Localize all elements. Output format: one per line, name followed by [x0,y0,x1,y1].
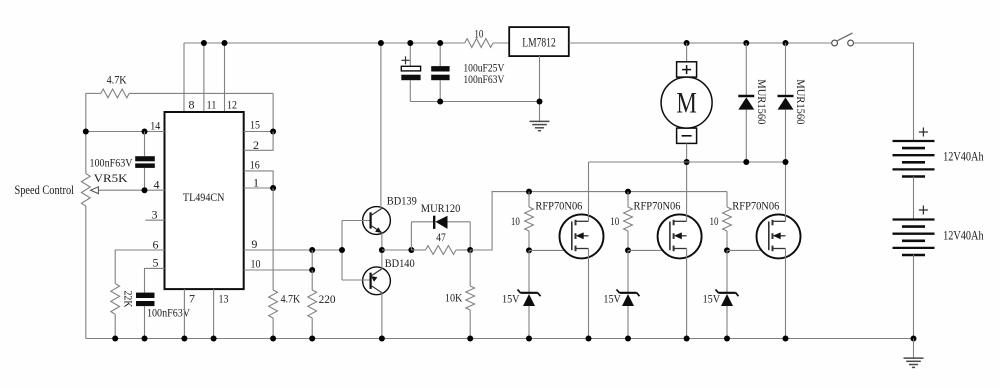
junction wiper line / C1 [142,187,148,193]
junction ground rail 4.7K [270,336,276,342]
wire pot wiper to pin 4 [95,189,165,191]
wire up to MUR120 anode side [410,222,412,250]
svg-text:12V40Ah: 12V40Ah [943,228,984,242]
transistor M2 RFP70N06 MOSFET [658,214,702,258]
junction BD139 collector / top rail [378,40,384,46]
junction MUR1560 1 / top rail [743,40,749,46]
junction pin 11 riser / top rail [201,40,207,46]
svg-text:22K: 22K [121,291,135,308]
svg-text:1: 1 [253,175,259,189]
svg-text:Speed Control: Speed Control [15,182,75,197]
wire BD140 collector to ground rail [381,293,383,339]
junction gate node 1 [526,247,532,253]
svg-text:6: 6 [153,237,159,251]
transistor Q1 BD139 [342,207,390,235]
svg-text:10: 10 [610,214,619,228]
pin 3 stub [145,219,164,221]
svg-text:3: 3 [152,207,158,221]
wire emitter node to 47R node [382,249,412,251]
junction ground rail pin 7 [181,336,187,342]
junction MUR1560 2 / top rail [783,40,789,46]
junction ground rail BD140 collector [379,336,385,342]
resistor 4.7K feedback (top left) [86,92,101,94]
svg-text:4.7K: 4.7K [281,292,301,306]
svg-text:12V40Ah: 12V40Ah [943,149,984,163]
wiper arrow of VR5K [91,187,99,194]
svg-text:5: 5 [153,256,159,270]
wire pin 1 [244,187,273,189]
svg-text:47: 47 [436,230,446,244]
junction C3 / top rail [407,40,413,46]
battery B1 12V40Ah [893,140,935,142]
capacitor C2 100nF63V (pin 5 to ground) [136,293,155,298]
resistor 220 (pins 9-10 to ground) [311,270,313,290]
minus sign motor terminal [682,135,692,137]
junction 47R left node [408,247,414,253]
junction emitters / output node [379,247,385,253]
wire caps bottom to LM7812 ground [410,101,539,103]
junction pin 1 / pin 16 / 4.7K [270,185,276,191]
svg-text:15V: 15V [603,292,621,306]
resistor 10 gate resistor 3 [726,192,728,207]
junction C4 bottom [437,99,443,105]
junction ground rail zener 3 [724,336,730,342]
junction MUR1560 2 / drain bus [783,159,789,165]
junction LM7812 ground node [537,99,543,105]
svg-text:10: 10 [511,214,520,228]
svg-text:13: 13 [219,292,229,306]
svg-text:100nF63V: 100nF63V [463,72,504,86]
svg-text:100nF63V: 100nF63V [90,155,133,169]
junction ground rail C2 [142,336,148,342]
wire battery B2 to ground rail [913,255,915,339]
svg-text:MUR1560: MUR1560 [794,79,808,124]
wire pin 14 [86,131,165,133]
wire LM7812 to switch [569,42,832,44]
potentiometer VR5K body [81,174,90,207]
wire BD139 collector to +V rail [380,43,382,208]
svg-text:TL494CN: TL494CN [183,190,225,204]
wire pin 7 to ground rail [183,289,185,338]
junction gate node 2 [625,247,631,253]
wire +V top rail left segment (pin8 riser corner to 10R) [184,42,465,44]
wire gate lead 3 [727,249,769,251]
svg-text:15V: 15V [703,292,721,306]
svg-text:10: 10 [474,27,483,41]
junction ground rail MOSFET 2 source [684,336,690,342]
wire battery negative to ground symbol [913,339,915,359]
svg-text:MUR1560: MUR1560 [755,79,769,124]
ground symbol at LM7812 [530,120,550,122]
switch S1 [837,33,852,41]
junction ground rail 220 [309,336,315,342]
transistor M3 RFP70N06 MOSFET [757,214,801,258]
regulator U2 LM7812 box [509,27,569,56]
svg-text:RFP70N06: RFP70N06 [535,199,582,213]
transistor Q2 BD140 [342,267,390,295]
wire joining pin 9 and pin 10 [311,250,313,270]
junction pin 10 / 220 resistor [309,267,315,273]
junction left rail / pin 14 [83,129,89,135]
junction ground rail pin 13 [211,336,217,342]
wire gate drive feed up to gate bus [470,192,727,250]
plus sign battery B1 [919,131,928,133]
svg-text:10: 10 [710,214,719,228]
op IC U1 TL494CN box [165,112,244,289]
resistor 10 gate resistor 1 [528,192,530,207]
wire 10R to LM7812 [493,42,509,44]
wire 4.7K down to pin 15 node [272,93,274,131]
wire emitter bus Q1-Q2 [381,233,383,269]
svg-text:8: 8 [189,98,195,112]
svg-text:4.7K: 4.7K [107,73,127,87]
wire MOSFET 1 drain [588,162,590,221]
svg-text:9: 9 [251,237,257,251]
junction motor / top rail [684,40,690,46]
wire MUR120 cathode down to 47R right node [469,222,471,250]
wire pin 2 up to pin 15 node [244,132,273,151]
transistor M1 RFP70N06 MOSFET [560,214,604,258]
svg-text:12: 12 [227,98,237,112]
junction C4 / top rail [437,40,443,46]
junction pin 12 riser / top rail [222,40,228,46]
junction base bus / pin 9 wire [339,247,345,253]
wire gate lead 1 [529,249,572,251]
svg-text:MUR120: MUR120 [421,201,461,215]
ground symbol at battery [904,357,924,359]
junction MUR1560 1 / drain bus [743,159,749,165]
resistor 4.7K (pin 1 to ground) [272,188,274,290]
resistor 10 (series, LM7812 input) [465,39,493,48]
svg-text:LM7812: LM7812 [522,36,556,50]
wire LM7812 ground pin [539,56,541,121]
wire base bus vertical [341,221,343,281]
junction pin 9 / 220 resistor [309,247,315,253]
junction ground rail zener 1 [526,336,532,342]
wire pin 16 down to pin 1 node [244,171,273,188]
resistor 10 gate resistor 2 [627,192,629,207]
junction pin 15 / 4.7K / pin 2 [270,129,276,135]
wire MOSFET 1 source to ground rail [588,249,590,339]
wire pin 6 [115,250,164,284]
svg-text:M: M [676,86,697,119]
junction ground rail battery negative [911,336,917,342]
wire gate lead 2 [628,249,670,251]
junction motor minus / drain bus [684,159,690,165]
svg-text:BD139: BD139 [387,194,417,208]
svg-text:10: 10 [251,256,261,270]
junction gate bus / 10R 1 [526,189,532,195]
junction gate bus / 10R 2 [625,189,631,195]
wire switch to battery column [854,43,914,141]
plus sign motor terminal [682,69,691,71]
svg-text:4: 4 [154,178,160,192]
junction ground rail MOSFET 3 source [783,336,789,342]
wire pin 9 to driver bases [244,249,342,251]
junction 47R right node [467,247,473,253]
svg-text:RFP70N06: RFP70N06 [732,199,779,213]
resistor 22K (pin 6 to ground) [111,284,120,315]
wire ground bottom rail [86,338,914,340]
svg-text:15: 15 [250,118,260,132]
wire motor minus lead to drain bus [686,143,688,162]
zener D6 15V gate clamp 3 [726,250,728,292]
diode D2 MUR1560 1 [745,43,747,95]
junction ground rail 22K [112,336,118,342]
svg-text:14: 14 [150,118,160,132]
junction pin 14 / capacitor C1 [142,129,148,135]
capacitor C1 100nF63V (pin14-pin4) [144,132,146,157]
svg-text:220: 220 [319,292,336,306]
junction ground rail zener 2 [625,336,631,342]
svg-text:7: 7 [189,292,195,306]
svg-text:11: 11 [207,98,217,112]
resistor 47 (parallel with MUR120) [411,249,425,251]
wire drain bus [589,161,786,163]
wire pin 12 riser [224,43,226,112]
diode D1 MUR120 [411,221,435,223]
plus sign for C3 [402,59,410,61]
resistor 10K (gate bus pulldown) [469,250,471,286]
svg-text:100nF63V: 100nF63V [147,306,190,320]
junction ground rail MOSFET 1 source [586,336,592,342]
zener D4 15V gate clamp 1 [528,250,530,292]
wire MOSFET 2 source to ground rail [686,249,688,339]
wire pin 8 riser [183,43,185,112]
plus sign battery B2 [919,209,928,211]
battery B2 12V40Ah [893,218,935,220]
zener D5 15V gate clamp 2 [627,250,629,292]
wire MOSFET 3 drain [785,162,787,221]
wire pin 11 riser [203,43,205,112]
diode D3 MUR1560 2 [785,43,787,95]
wire left rail below potentiometer [85,206,87,339]
junction gate node 3 [724,247,730,253]
svg-text:2: 2 [253,138,259,152]
wire pin 13 to ground rail [213,289,215,338]
svg-text:VR5K: VR5K [94,171,128,185]
wire between batteries [913,177,915,220]
wire MOSFET 2 drain [686,162,688,221]
wire left rail above potentiometer [85,93,87,173]
svg-text:10K: 10K [445,291,463,305]
wire motor plus lead [686,43,688,62]
junction ground rail 10K [467,336,473,342]
svg-text:15V: 15V [502,292,520,306]
capacitor C4 100nF63V [439,43,441,66]
svg-text:BD140: BD140 [385,256,415,270]
wire pin 10 [244,269,313,271]
wire pin 5 [145,268,165,292]
motor M1 terminals and body [677,62,697,77]
wire MOSFET 3 source to ground rail [785,249,787,339]
capacitor C3 100uF25V electrolytic [409,43,411,66]
svg-text:RFP70N06: RFP70N06 [634,199,681,213]
svg-text:16: 16 [250,158,260,172]
wire pin 15 [244,131,273,133]
